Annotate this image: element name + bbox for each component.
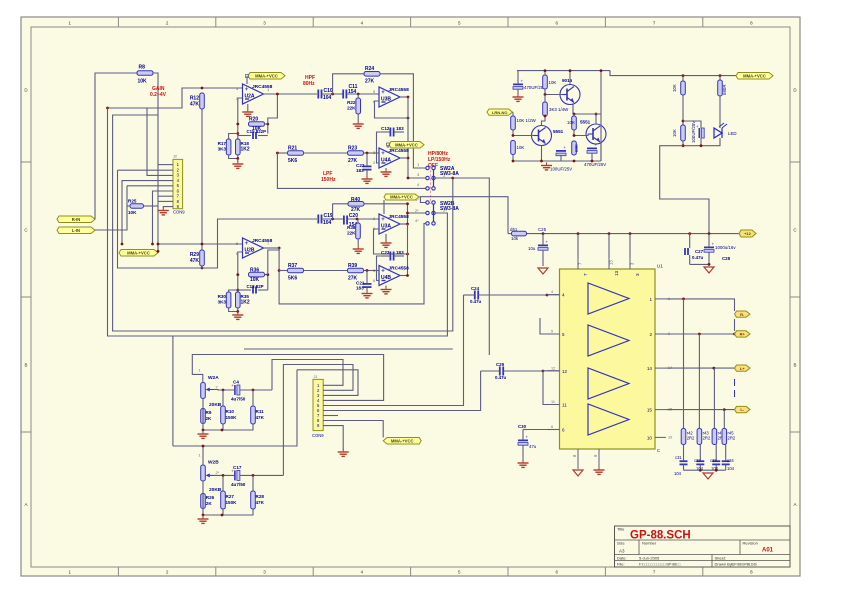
wire J2 pin7 bbox=[158, 195, 173, 197]
IC U1 amp triangles bbox=[588, 283, 629, 435]
resistor 3K3 1/4W bbox=[543, 95, 569, 117]
ground IC pin9 bars bbox=[594, 467, 605, 474]
ground C22 bbox=[362, 176, 373, 183]
svg-text:C17: C17 bbox=[233, 465, 242, 470]
svg-text:5: 5 bbox=[562, 332, 565, 337]
svg-text:R10: R10 bbox=[226, 409, 235, 414]
ground U4B bbox=[381, 286, 392, 294]
svg-text:10K: 10K bbox=[549, 80, 557, 85]
svg-text:1: 1 bbox=[649, 297, 652, 302]
svg-text:10K: 10K bbox=[250, 277, 260, 283]
wire R21 to SW2A pin4 bbox=[277, 153, 425, 188]
wire R36 right bbox=[265, 273, 270, 290]
wire U2A output feedback bbox=[268, 94, 278, 124]
resistor R23 bbox=[348, 146, 364, 165]
svg-text:5551: 5551 bbox=[553, 129, 564, 134]
wire C17 right bbox=[222, 474, 284, 477]
wire R17 top bbox=[229, 134, 238, 140]
svg-text:+: + bbox=[381, 217, 385, 223]
svg-text:c34: c34 bbox=[727, 458, 734, 463]
wire C4 right bbox=[222, 389, 272, 392]
wire pin5 U1 left bbox=[540, 318, 547, 334]
svg-text:15: 15 bbox=[647, 408, 653, 413]
svg-text:C19: C19 bbox=[324, 213, 333, 219]
wire R25 left tee bbox=[127, 205, 130, 207]
svg-text:+: + bbox=[521, 79, 524, 84]
capacitor C15 bbox=[238, 129, 268, 139]
ground U3A bbox=[381, 234, 392, 247]
svg-text:27K: 27K bbox=[365, 79, 375, 85]
zobel cap labels bbox=[674, 455, 735, 476]
wire C29 to pin11 bbox=[543, 371, 547, 405]
svg-text:+: + bbox=[245, 87, 249, 93]
svg-text:104: 104 bbox=[323, 95, 332, 101]
svg-text:R26: R26 bbox=[206, 495, 215, 500]
junction feedback bbox=[236, 123, 239, 135]
svg-text:2R2: 2R2 bbox=[728, 436, 736, 441]
wire pin15 out bbox=[666, 408, 735, 411]
wire R30 top bbox=[229, 290, 238, 292]
svg-text:C24: C24 bbox=[471, 286, 480, 291]
resistor R21 bbox=[288, 146, 304, 165]
wire J2 pin1 bbox=[158, 164, 173, 166]
resistor R11 bbox=[203, 390, 265, 430]
op-amp U3A bbox=[379, 214, 409, 234]
wire J2 pin5 bbox=[127, 185, 173, 187]
pin labels U2B bbox=[236, 241, 270, 256]
svg-text:A: A bbox=[793, 502, 796, 507]
svg-text:47K: 47K bbox=[190, 258, 200, 264]
border column ticks and numbers bbox=[68, 17, 753, 576]
wire U4A output bbox=[400, 157, 408, 159]
junction C25 bbox=[538, 227, 547, 235]
resistor 10K 1/2W bbox=[511, 112, 537, 130]
svg-text:104: 104 bbox=[323, 220, 332, 226]
wire SW2B pin2 feed bbox=[406, 212, 425, 215]
wire U2A input net bbox=[106, 88, 242, 109]
svg-text:R35: R35 bbox=[241, 294, 250, 299]
svg-text:100UF/25V: 100UF/25V bbox=[691, 121, 696, 143]
svg-text:1: 1 bbox=[199, 369, 201, 373]
potentiometer W2A bbox=[199, 369, 220, 399]
svg-text:5: 5 bbox=[551, 330, 553, 334]
wire port to SW2B pin1 bbox=[420, 197, 425, 203]
capacitor C22 bbox=[356, 153, 372, 177]
svg-text:C23: C23 bbox=[381, 250, 390, 255]
svg-text:Sheet:: Sheet: bbox=[715, 555, 727, 560]
ground U2A bbox=[242, 104, 253, 116]
svg-text:R27: R27 bbox=[226, 494, 235, 499]
capacitor C20 bbox=[344, 216, 347, 225]
resistor R27 bbox=[221, 475, 237, 515]
svg-text:14: 14 bbox=[647, 366, 653, 371]
svg-text:C: C bbox=[657, 448, 660, 453]
IC pins left bbox=[547, 290, 568, 432]
wire VCC rail top right bbox=[610, 71, 736, 76]
capacitor C11 bbox=[343, 84, 357, 99]
svg-text:Date:: Date: bbox=[617, 555, 627, 560]
svg-text:1K2: 1K2 bbox=[241, 300, 250, 306]
svg-text:U4A: U4A bbox=[381, 157, 391, 163]
capacitor C28 bbox=[704, 234, 736, 265]
svg-text:6: 6 bbox=[551, 425, 553, 429]
ground R38 bbox=[353, 239, 364, 253]
svg-text:1000u/16v: 1000u/16v bbox=[715, 245, 736, 250]
svg-text:U2A: U2A bbox=[245, 93, 255, 99]
capacitor C30 bbox=[518, 424, 560, 430]
svg-text:C15 822P: C15 822P bbox=[247, 129, 267, 134]
svg-text:R25: R25 bbox=[128, 199, 137, 204]
resistor R24 bbox=[364, 66, 380, 85]
wire J1 pin7 stub bbox=[323, 415, 338, 417]
svg-text:5551: 5551 bbox=[580, 120, 591, 125]
svg-text:JRC4558: JRC4558 bbox=[252, 238, 273, 244]
svg-text:10K: 10K bbox=[672, 129, 677, 137]
port MMA-+VCC above U4A bbox=[387, 142, 425, 149]
svg-text:R-IN: R-IN bbox=[72, 217, 81, 222]
svg-text:C18 82P: C18 82P bbox=[247, 284, 264, 289]
svg-text:100UF/25V: 100UF/25V bbox=[550, 167, 572, 172]
resistor R30 bbox=[218, 292, 231, 308]
svg-text:0.47u: 0.47u bbox=[495, 375, 507, 380]
svg-text:L+: L+ bbox=[740, 366, 745, 371]
resistor R29 bbox=[190, 250, 204, 266]
svg-text:10K: 10K bbox=[517, 145, 525, 150]
svg-text:MMA-+VCC: MMA-+VCC bbox=[127, 250, 150, 255]
op-amp U2B bbox=[243, 238, 273, 258]
svg-text:4: 4 bbox=[562, 293, 565, 298]
label GAIN bbox=[150, 86, 167, 98]
svg-text:c32: c32 bbox=[694, 458, 701, 463]
resistor 10K pulldown bbox=[672, 125, 685, 141]
wire R-IN vertical bbox=[95, 73, 137, 219]
svg-text:B: B bbox=[793, 363, 796, 368]
wire C24 row bbox=[464, 294, 560, 297]
junction R12 top bbox=[201, 87, 204, 90]
junction dots switch feeds bbox=[407, 177, 410, 180]
svg-text:U2B: U2B bbox=[245, 247, 255, 253]
svg-text:C28: C28 bbox=[722, 256, 731, 261]
svg-text:R28: R28 bbox=[256, 494, 265, 499]
wire rail to IC pin13 bbox=[608, 234, 610, 258]
svg-text:2*: 2* bbox=[415, 208, 419, 213]
svg-text:J2: J2 bbox=[173, 155, 177, 159]
wire pin1 out bbox=[666, 298, 735, 312]
svg-text:6: 6 bbox=[562, 428, 565, 433]
svg-text:47K: 47K bbox=[256, 500, 265, 505]
svg-text:150K: 150K bbox=[226, 500, 238, 505]
wire R40 feedback left bbox=[333, 204, 348, 219]
svg-text:A01: A01 bbox=[762, 548, 774, 554]
svg-text:R18: R18 bbox=[241, 141, 250, 146]
port MMA-+VCC top right bbox=[736, 73, 773, 80]
svg-text:A3: A3 bbox=[619, 549, 625, 554]
wire U2B box bbox=[118, 170, 318, 268]
wire Q3 collector bbox=[595, 113, 598, 125]
svg-text:3K3 1/4W: 3K3 1/4W bbox=[549, 107, 569, 112]
svg-text:MMA-+VCC: MMA-+VCC bbox=[743, 73, 766, 78]
svg-text:MMA-+VCC: MMA-+VCC bbox=[391, 438, 414, 443]
svg-text:+: + bbox=[526, 435, 529, 440]
wire W2B top right branch bbox=[202, 370, 297, 448]
resistor 10K pullup1 bbox=[672, 76, 685, 95]
svg-text:183: 183 bbox=[396, 126, 404, 131]
port R+ bbox=[735, 331, 751, 337]
svg-text:2R2: 2R2 bbox=[687, 436, 695, 441]
label 20KB lower bbox=[209, 487, 222, 493]
ground R35 bbox=[232, 312, 243, 320]
wire filler band bbox=[244, 348, 453, 350]
svg-text:9015: 9015 bbox=[562, 78, 573, 83]
op-amp U4B bbox=[379, 266, 409, 286]
svg-text:68K: 68K bbox=[574, 144, 579, 152]
svg-text:47K: 47K bbox=[256, 415, 265, 420]
wire C11 to U3B bbox=[347, 93, 379, 96]
svg-text:JRC4558: JRC4558 bbox=[252, 84, 273, 90]
port MMA-+VCC near SW2B bbox=[384, 194, 419, 200]
svg-text:C25: C25 bbox=[538, 227, 547, 232]
svg-text:183: 183 bbox=[356, 286, 364, 291]
wire J1 pin9 ground bbox=[323, 426, 343, 450]
wire zobel tops bbox=[684, 299, 725, 429]
svg-text:R8: R8 bbox=[139, 65, 146, 71]
resistor R38 bbox=[347, 219, 360, 239]
wire Q3 base bbox=[573, 130, 588, 137]
ground R18 bbox=[232, 159, 243, 169]
junction R29 bottom bbox=[201, 266, 204, 269]
wire R25 right bbox=[144, 205, 159, 207]
capacitor C27 bbox=[685, 234, 704, 265]
svg-text:R40: R40 bbox=[351, 197, 360, 203]
svg-text:+: + bbox=[546, 240, 549, 245]
svg-text:JRC4558: JRC4558 bbox=[389, 87, 410, 93]
wire VCC port U3A stub bbox=[383, 200, 385, 214]
svg-text:W2B: W2B bbox=[208, 460, 219, 466]
capacitor 100UF/25V led bbox=[691, 121, 704, 143]
svg-text:150Hz: 150Hz bbox=[321, 177, 336, 183]
svg-text:4: 4 bbox=[551, 290, 553, 294]
svg-text:2: 2 bbox=[649, 332, 652, 337]
wire J2 pin9 bbox=[163, 207, 173, 209]
wire divider mid bbox=[682, 95, 685, 125]
wire R20 right bbox=[265, 123, 270, 134]
svg-text:R36: R36 bbox=[250, 268, 259, 274]
svg-text:File:: File: bbox=[617, 561, 625, 566]
svg-text:4*: 4* bbox=[415, 218, 419, 223]
svg-text:20KB: 20KB bbox=[209, 487, 222, 493]
svg-text:U3B: U3B bbox=[381, 96, 391, 102]
capacitor emitter bypass bbox=[556, 145, 567, 161]
svg-text:12: 12 bbox=[551, 366, 555, 370]
svg-text:11: 11 bbox=[551, 400, 555, 404]
svg-text:2*: 2* bbox=[443, 208, 447, 213]
svg-text:R23: R23 bbox=[348, 146, 357, 152]
svg-text:104: 104 bbox=[674, 471, 682, 476]
wire R30 R35 bottom bbox=[229, 308, 240, 313]
port MMA-+VCC left bbox=[119, 250, 158, 257]
svg-text:R17: R17 bbox=[218, 141, 227, 146]
wire LED top bbox=[719, 96, 721, 128]
svg-text:+12: +12 bbox=[744, 231, 752, 236]
switch SW2B bbox=[415, 197, 459, 225]
svg-text:10k: 10k bbox=[511, 236, 519, 241]
pin labels U4B bbox=[373, 267, 406, 283]
IC pins bottom bbox=[572, 449, 599, 469]
wire J2 pin2 bbox=[118, 169, 174, 171]
wire W2B top route bbox=[173, 446, 203, 465]
wire J2 pin8 bbox=[158, 200, 173, 202]
svg-text:+: + bbox=[245, 241, 249, 247]
svg-text:2: 2 bbox=[216, 386, 218, 390]
ground C25 triangle bbox=[538, 268, 548, 274]
svg-text:10K: 10K bbox=[138, 79, 148, 85]
ground zobel triangle bbox=[703, 473, 713, 479]
connector J1 CON9 bbox=[312, 375, 324, 438]
wire C29 row bbox=[481, 370, 560, 373]
svg-text:2K: 2K bbox=[206, 416, 213, 421]
wire R37 left bbox=[279, 270, 287, 272]
capacitor 10u C25 bbox=[528, 234, 549, 266]
svg-text:3: 3 bbox=[635, 273, 640, 276]
capacitor C17 bbox=[231, 465, 246, 487]
svg-text:+: + bbox=[381, 269, 385, 275]
wire U2A pin2 feedback bbox=[238, 98, 243, 139]
svg-text:3K3: 3K3 bbox=[218, 147, 227, 152]
resistor R26 bbox=[201, 481, 215, 515]
svg-text:10K: 10K bbox=[672, 84, 677, 92]
resistor R18 bbox=[236, 139, 250, 155]
wire OFF bypass upper bbox=[453, 178, 490, 355]
svg-text:CON9: CON9 bbox=[173, 210, 185, 215]
dashed link L ports bbox=[734, 379, 736, 401]
op-amp U2A bbox=[243, 84, 273, 104]
svg-text:470UF/25V: 470UF/25V bbox=[584, 162, 606, 167]
wire W2A wiper row bbox=[214, 389, 234, 392]
svg-text:c31: c31 bbox=[675, 455, 682, 460]
zobel resistors r42-r45 bbox=[681, 429, 736, 445]
svg-text:5K6: 5K6 bbox=[288, 158, 297, 164]
svg-text:\GP-88\GP88.Ddb: \GP-88\GP88.Ddb bbox=[731, 562, 757, 566]
wire R17 R18 bottom bbox=[229, 155, 240, 160]
svg-text:A: A bbox=[24, 502, 27, 507]
wire R8 to J2 pin1 bbox=[153, 73, 158, 251]
wire Q2 collector bbox=[542, 115, 547, 126]
wire C10 to C11 bbox=[322, 93, 343, 96]
wire Q3 emitter cap bbox=[584, 143, 606, 168]
potentiometer W2B bbox=[199, 454, 220, 482]
svg-text:183: 183 bbox=[356, 168, 364, 173]
wire J1 pin8 route bbox=[323, 421, 383, 438]
wire bottom emitter rail bbox=[512, 160, 601, 163]
port L+ bbox=[735, 365, 751, 371]
svg-text:22K: 22K bbox=[347, 231, 356, 236]
pin labels U2A bbox=[236, 86, 270, 101]
wire C27 C28 bottom bbox=[690, 263, 711, 266]
svg-text:U1: U1 bbox=[657, 264, 663, 269]
wire 10K right top bbox=[573, 114, 575, 116]
svg-text:1: 1 bbox=[199, 454, 201, 458]
svg-text:Title: Title bbox=[617, 527, 625, 532]
svg-text:2R2: 2R2 bbox=[703, 436, 711, 441]
wire rail to IC pin7 bbox=[577, 234, 579, 258]
switch SW2A bbox=[417, 162, 459, 190]
wire C25 net bbox=[0, 0, 1, 1]
port L-IN bbox=[57, 227, 95, 234]
IC pins top bbox=[578, 258, 641, 276]
wire U2B out to C19 bbox=[264, 247, 280, 249]
svg-text:C27: C27 bbox=[695, 249, 704, 254]
wire Q3 emitter down bbox=[600, 142, 602, 161]
wire U3A output bbox=[400, 223, 409, 226]
wire J1 pin1 route bbox=[272, 360, 343, 391]
ground J2 bbox=[158, 208, 169, 215]
wire W2B top left riser bbox=[172, 336, 174, 446]
label HP/80Hz LP/150Hz OFF bbox=[428, 151, 451, 169]
wire R12 bottom to R29 bbox=[201, 109, 203, 250]
svg-text:0.47u: 0.47u bbox=[470, 299, 482, 304]
op-amp U4A bbox=[379, 148, 409, 168]
wire J1 pin6 route bbox=[323, 371, 480, 411]
resistor R8 bbox=[137, 65, 153, 85]
resistor R17 bbox=[218, 139, 231, 155]
wire pin2 out bbox=[666, 333, 736, 336]
svg-text:22K: 22K bbox=[347, 106, 356, 111]
ground emitter bbox=[541, 163, 572, 172]
resistor 10K lower bbox=[511, 141, 525, 162]
wire U4B feedback C23 bbox=[377, 256, 382, 281]
svg-text:20KB: 20KB bbox=[209, 402, 222, 408]
svg-text:10K: 10K bbox=[128, 210, 137, 215]
svg-text:d51: d51 bbox=[510, 227, 518, 232]
svg-text:10u: 10u bbox=[528, 246, 536, 251]
svg-text:4u7/50: 4u7/50 bbox=[231, 397, 246, 402]
ground IC pin8 triangle bbox=[573, 470, 583, 476]
wire R24 feedback left bbox=[333, 74, 364, 94]
svg-text:10K: 10K bbox=[567, 120, 575, 125]
wire zobel ground rail bbox=[684, 469, 726, 472]
wire R40 right bbox=[364, 202, 409, 224]
wire U3B pin6 feedback bbox=[375, 101, 410, 119]
resistor R20 bbox=[249, 117, 265, 133]
svg-text:47u: 47u bbox=[529, 444, 537, 449]
svg-text:MMA-+VCC: MMA-+VCC bbox=[255, 73, 278, 78]
svg-text:MMA-+VCC: MMA-+VCC bbox=[390, 195, 413, 200]
svg-text:13: 13 bbox=[614, 270, 619, 276]
LED bbox=[714, 123, 737, 138]
svg-text:680R: 680R bbox=[722, 85, 727, 96]
capacitor C10 bbox=[318, 88, 333, 101]
svg-text:c33: c33 bbox=[710, 458, 717, 463]
IC U1 body bbox=[560, 264, 664, 454]
svg-text:3K3: 3K3 bbox=[218, 300, 227, 305]
resistor R39 bbox=[348, 263, 364, 282]
wire U2B out feedback bbox=[268, 248, 279, 275]
resistor R28 bbox=[203, 475, 265, 515]
svg-text:Number: Number bbox=[642, 541, 657, 546]
svg-text:R22: R22 bbox=[347, 100, 356, 105]
wire Q1 emitter bbox=[573, 104, 601, 116]
transistor Q3 5551 bbox=[580, 120, 606, 145]
resistor 10K right bbox=[567, 113, 576, 130]
connector J2 CON9 bbox=[173, 155, 185, 215]
resistor R10 bbox=[221, 390, 237, 430]
svg-text:+: + bbox=[381, 151, 385, 157]
svg-text:U3A: U3A bbox=[381, 223, 391, 229]
wire R51 left bbox=[508, 233, 512, 235]
svg-text:1K2: 1K2 bbox=[241, 147, 250, 153]
wire J1 pin2 route bbox=[283, 365, 353, 476]
wire U2A out to C10 bbox=[264, 93, 318, 96]
